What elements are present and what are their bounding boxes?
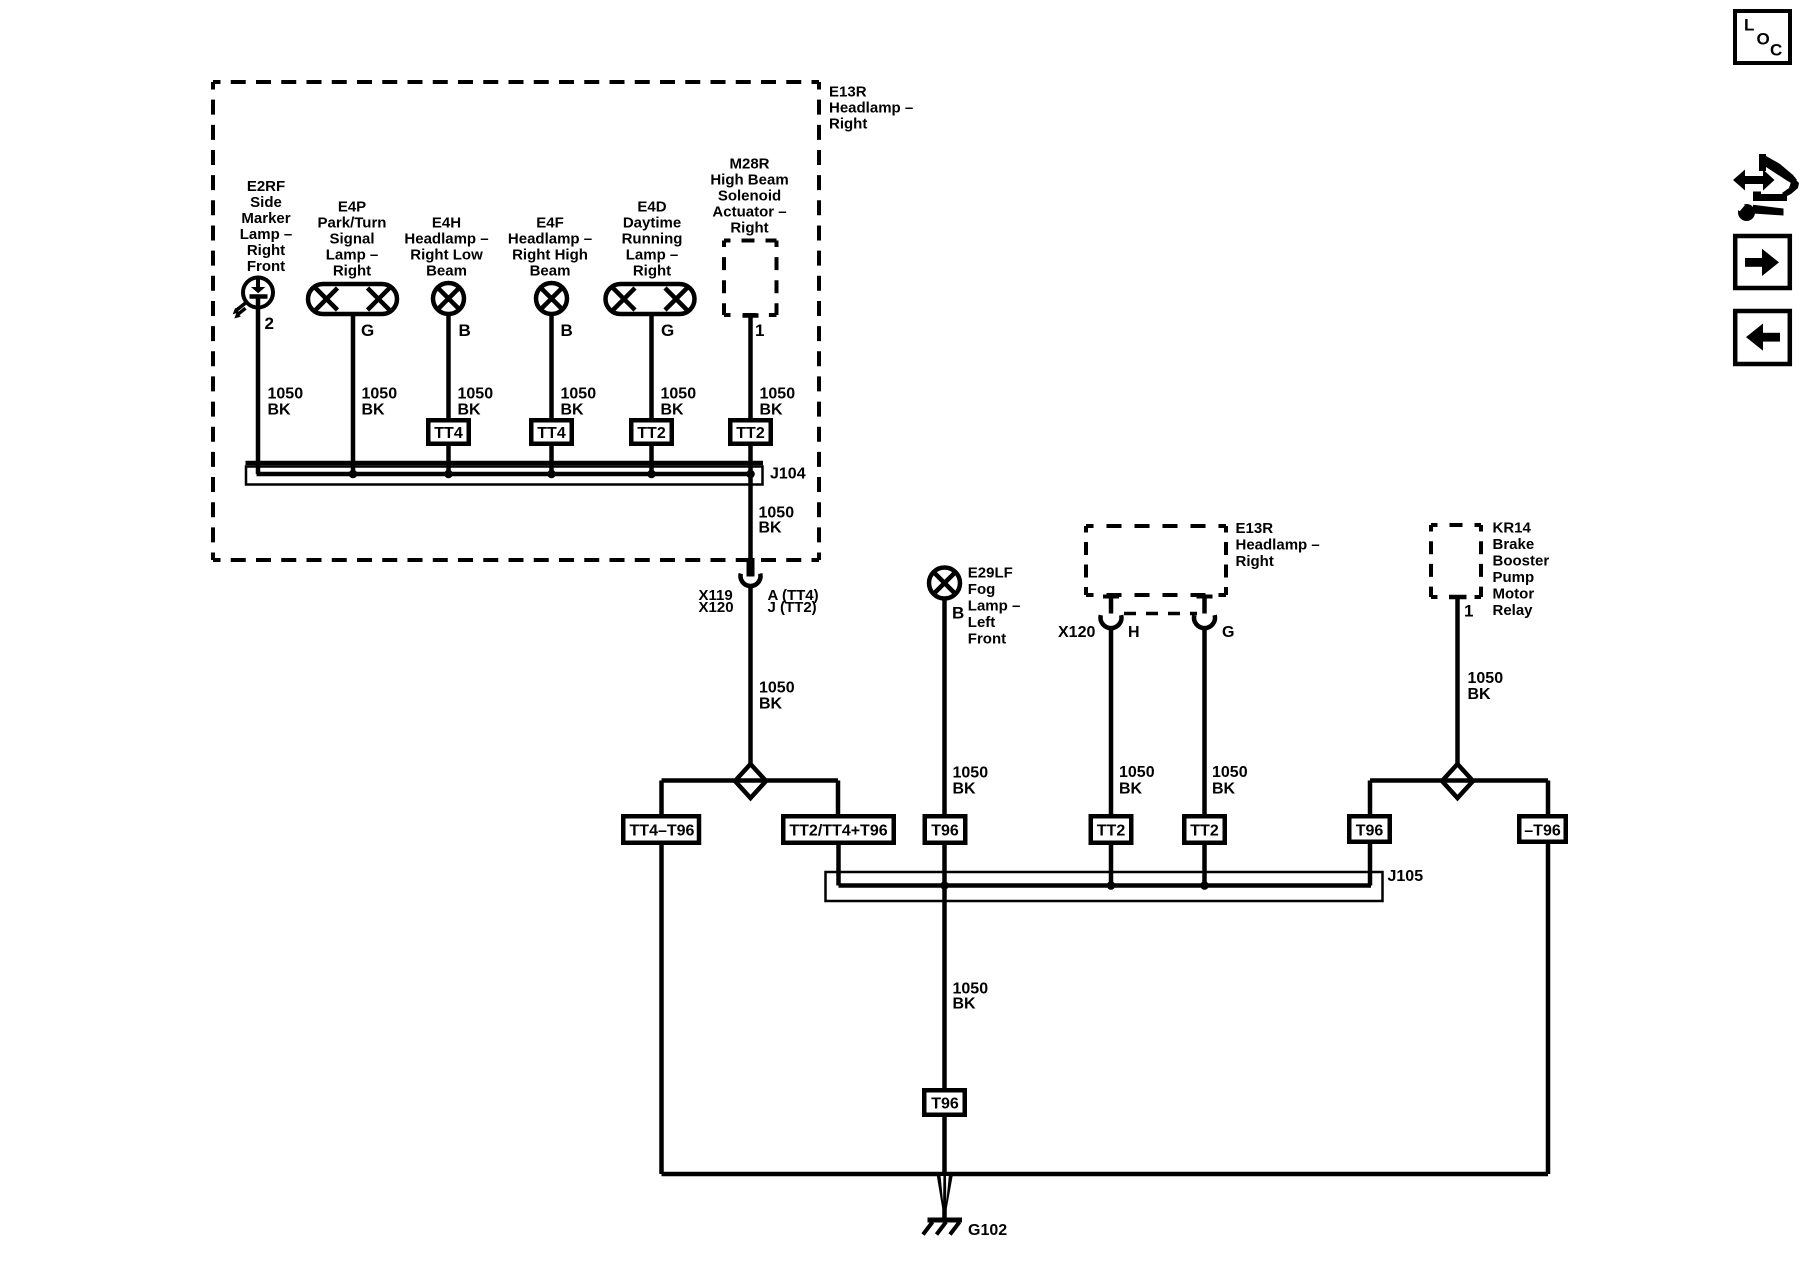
svg-text:E4P: E4P [338, 199, 366, 216]
svg-text:T96: T96 [931, 822, 959, 839]
svg-text:BK: BK [458, 402, 482, 419]
svg-text:B: B [952, 603, 964, 622]
svg-text:Daytime: Daytime [623, 215, 681, 232]
svg-text:BK: BK [268, 402, 292, 419]
svg-text:H: H [1128, 624, 1140, 641]
svg-text:Motor: Motor [1493, 586, 1535, 603]
svg-text:Solenoid: Solenoid [718, 188, 781, 205]
svg-text:Marker: Marker [241, 210, 290, 227]
svg-text:M28R: M28R [729, 156, 769, 173]
svg-text:Signal: Signal [329, 231, 374, 248]
svg-text:X120: X120 [1058, 624, 1095, 641]
svg-text:Right High: Right High [512, 246, 588, 263]
svg-text:1: 1 [1464, 602, 1473, 621]
svg-text:BK: BK [1119, 781, 1143, 798]
svg-text:1050: 1050 [561, 386, 597, 403]
svg-text:BK: BK [362, 402, 386, 419]
svg-text:Brake: Brake [1493, 536, 1535, 553]
svg-text:J105: J105 [1388, 868, 1424, 885]
svg-text:TT2: TT2 [736, 425, 765, 442]
svg-text:Right: Right [829, 115, 867, 132]
svg-text:J (TT2): J (TT2) [768, 599, 817, 616]
svg-text:Right: Right [730, 220, 768, 237]
svg-text:1050: 1050 [1212, 764, 1248, 781]
svg-text:1050: 1050 [760, 386, 796, 403]
svg-text:1050: 1050 [362, 386, 398, 403]
svg-text:TT2: TT2 [1190, 822, 1219, 839]
svg-text:E4F: E4F [536, 214, 564, 231]
svg-text:Park/Turn: Park/Turn [318, 215, 387, 232]
svg-text:L: L [1744, 16, 1754, 35]
svg-text:BK: BK [953, 996, 977, 1013]
svg-text:BK: BK [759, 520, 783, 537]
svg-text:G: G [661, 321, 674, 340]
svg-text:Headlamp –: Headlamp – [508, 230, 592, 247]
svg-text:TT2: TT2 [637, 425, 666, 442]
svg-text:1050: 1050 [458, 386, 494, 403]
svg-text:Headlamp –: Headlamp – [404, 230, 488, 247]
svg-text:2: 2 [265, 314, 274, 333]
svg-text:High Beam: High Beam [710, 172, 788, 189]
svg-text:E29LF: E29LF [968, 565, 1013, 582]
svg-text:Pump: Pump [1493, 569, 1535, 586]
svg-text:G: G [361, 321, 374, 340]
svg-text:E2RF: E2RF [247, 178, 285, 195]
svg-text:E13R: E13R [1236, 520, 1274, 537]
svg-text:E4H: E4H [432, 214, 461, 231]
svg-text:Right: Right [247, 242, 285, 259]
svg-text:1050: 1050 [661, 386, 697, 403]
svg-text:Fog: Fog [968, 581, 996, 598]
svg-text:Lamp –: Lamp – [968, 598, 1021, 615]
svg-text:BK: BK [1468, 686, 1492, 703]
svg-text:G: G [1222, 624, 1234, 641]
svg-text:BK: BK [953, 781, 977, 798]
svg-text:1050: 1050 [759, 680, 795, 697]
svg-text:TT4: TT4 [537, 425, 566, 442]
svg-text:TT2/TT4+T96: TT2/TT4+T96 [789, 822, 887, 839]
svg-text:BK: BK [661, 402, 685, 419]
svg-text:TT4: TT4 [434, 425, 463, 442]
svg-text:Booster: Booster [1493, 553, 1550, 570]
svg-text:C: C [1770, 41, 1782, 60]
svg-text:BK: BK [760, 402, 784, 419]
svg-text:Left: Left [968, 614, 996, 631]
svg-text:Running: Running [622, 231, 683, 248]
svg-text:1050: 1050 [268, 386, 304, 403]
svg-text:Headlamp –: Headlamp – [1236, 537, 1320, 554]
svg-text:Beam: Beam [530, 262, 571, 279]
svg-text:TT4–T96: TT4–T96 [630, 822, 695, 839]
svg-text:BK: BK [561, 402, 585, 419]
svg-text:–T96: –T96 [1524, 822, 1561, 839]
svg-text:Lamp –: Lamp – [240, 226, 293, 243]
svg-text:BK: BK [759, 696, 783, 713]
svg-text:1: 1 [755, 321, 764, 340]
svg-text:Right: Right [333, 263, 371, 280]
svg-text:O: O [1757, 30, 1770, 49]
svg-text:B: B [561, 321, 573, 340]
svg-text:Actuator –: Actuator – [712, 204, 786, 221]
svg-text:Side: Side [250, 194, 282, 211]
svg-text:E13R: E13R [829, 83, 867, 100]
svg-text:TT2: TT2 [1097, 822, 1126, 839]
svg-text:Right: Right [633, 263, 671, 280]
svg-text:Lamp –: Lamp – [326, 247, 379, 264]
svg-text:Beam: Beam [426, 262, 467, 279]
svg-text:Right: Right [1236, 553, 1274, 570]
svg-text:Front: Front [968, 631, 1006, 648]
svg-text:B: B [459, 321, 471, 340]
svg-text:T96: T96 [1356, 822, 1384, 839]
svg-text:1050: 1050 [953, 765, 989, 782]
svg-text:Relay: Relay [1493, 602, 1534, 619]
svg-text:Headlamp –: Headlamp – [829, 99, 913, 116]
svg-text:1050: 1050 [1119, 764, 1155, 781]
svg-text:Front: Front [247, 258, 285, 275]
svg-text:X120: X120 [699, 599, 734, 616]
svg-text:1050: 1050 [1468, 670, 1504, 687]
svg-text:BK: BK [1212, 781, 1236, 798]
svg-text:Lamp –: Lamp – [626, 247, 679, 264]
svg-text:G102: G102 [968, 1222, 1007, 1239]
svg-text:Right Low: Right Low [410, 246, 483, 263]
svg-text:J104: J104 [770, 466, 806, 483]
svg-text:KR14: KR14 [1493, 520, 1532, 537]
svg-text:T96: T96 [931, 1096, 959, 1113]
svg-text:E4D: E4D [637, 199, 666, 216]
